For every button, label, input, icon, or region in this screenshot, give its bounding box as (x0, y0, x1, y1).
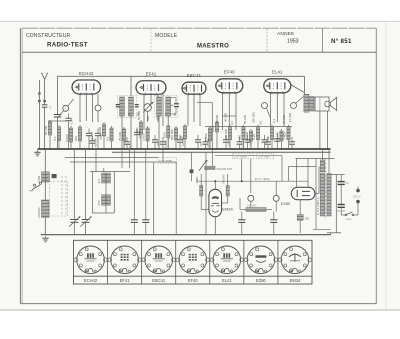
HT rail right (205, 126, 292, 128)
antenna lead-in arrow (38, 80, 41, 97)
svg-text:MAESTRO: MAESTRO (197, 44, 229, 50)
power transformer primary (320, 173, 325, 216)
svg-text:2.000: 2.000 (241, 140, 245, 148)
volume potentiometer (199, 160, 233, 171)
HT rail left (48, 120, 67, 122)
band switch dashed box (50, 182, 68, 217)
EM34 plate resistor (226, 186, 229, 197)
T1 padder capacitor right (135, 105, 139, 107)
wire x96 down (95, 149, 97, 172)
test point m (95, 94, 101, 122)
bottom chassis bus (41, 234, 331, 236)
svg-text:30: 30 (127, 112, 131, 116)
capacitor c6 (124, 137, 130, 149)
svg-text:C.S.6.V604.A: C.S.6.V604.A (316, 197, 320, 215)
resistor r7 (122, 129, 125, 141)
svg-text:0,1: 0,1 (155, 115, 159, 120)
svg-text:C.R. 450: C.R. 450 (258, 155, 269, 159)
svg-text:50+50: 50+50 (337, 209, 345, 213)
EZ80 leads (288, 159, 334, 230)
ground bottom left (42, 236, 48, 242)
extra value labels right cluster (137, 110, 292, 125)
svg-text:0,5: 0,5 (258, 120, 262, 125)
resistor r21 leads (288, 125, 290, 149)
svg-text:0,02: 0,02 (211, 126, 215, 132)
svg-text:500.000 POT: 500.000 POT (216, 167, 232, 171)
band switch contacts (30, 182, 42, 191)
output transformer secondary (310, 96, 314, 111)
resistor r1 leads (49, 120, 51, 149)
capacitor c5 (134, 128, 140, 150)
svg-text:0,1: 0,1 (53, 136, 57, 141)
svg-text:200: 200 (156, 141, 160, 146)
socket EZ80 (244, 246, 277, 274)
resistor r2 (57, 127, 60, 141)
resistor r12 (183, 126, 186, 139)
svg-text:150: 150 (238, 134, 242, 139)
wire AVC rail y181 (196, 180, 308, 182)
resistor r4 (69, 128, 72, 142)
svg-text:0,1: 0,1 (128, 143, 132, 148)
svg-text:CONSTRUCTEUR: CONSTRUCTEUR (26, 33, 71, 39)
svg-text:25.000: 25.000 (118, 131, 122, 141)
svg-text:0,04: 0,04 (70, 118, 74, 124)
resistor r3 leads (79, 125, 81, 149)
IF2 coil a (102, 173, 106, 183)
antenna (41, 73, 48, 101)
svg-text:EBC41: EBC41 (187, 73, 202, 78)
resistor r11 (174, 128, 177, 140)
EM34 grid resistor (200, 186, 203, 197)
AF preamp EF40 (216, 79, 243, 94)
resistor r13 (208, 128, 211, 141)
socket EBC41 (142, 246, 175, 274)
svg-text:25.000: 25.000 (282, 114, 286, 124)
wire ECH42 cathode drops (80, 94, 93, 122)
resistor r12 leads (184, 124, 186, 149)
wire EL41 drops (271, 93, 285, 127)
triode-hexode ECH42 (72, 80, 101, 95)
filter capacitor 1 (338, 175, 350, 205)
svg-text:E.T.T. 4644: E.T.T. 4644 (255, 177, 270, 181)
coil value labels (37, 112, 320, 218)
rectifier EZ80 (291, 187, 315, 199)
svg-text:ECH42: ECH42 (79, 71, 94, 76)
potentiometer with arrow (143, 94, 153, 122)
resistor r15 leads (229, 125, 231, 149)
wire to test point B1 (250, 159, 252, 193)
svg-text:50: 50 (173, 112, 177, 116)
svg-text:EZ80: EZ80 (256, 278, 267, 283)
resistor r9 (146, 128, 149, 141)
resistor r1 (48, 122, 51, 135)
wire IF2 right (113, 172, 115, 213)
svg-text:40.000: 40.000 (276, 131, 280, 141)
resistor r19 (270, 127, 273, 140)
antenna coil Lb (46, 172, 50, 182)
svg-text:EM34: EM34 (222, 207, 233, 212)
resistor r14 (215, 122, 218, 132)
resistor r5 (102, 124, 105, 136)
wire y162 (70, 161, 176, 163)
svg-text:10.000: 10.000 (181, 136, 185, 146)
page bottom edge (0, 309, 400, 311)
capacitor ant coupling (54, 115, 61, 150)
IF2 coil c (102, 195, 106, 205)
wire left column (44, 149, 46, 172)
svg-text:500.000: 500.000 (247, 203, 257, 207)
page top edge (0, 20, 400, 22)
oscillator coil Lo (42, 200, 50, 218)
tube socket chart (74, 240, 313, 284)
EM34 resistor labels (195, 174, 225, 183)
svg-text:10.000: 10.000 (288, 112, 292, 122)
wire y157 (65, 157, 158, 159)
svg-text:50.000: 50.000 (222, 174, 226, 183)
wire vertical v3 (153, 162, 155, 235)
bypass capacitor cb2 (142, 149, 149, 235)
drawing frame (20, 28, 376, 304)
wire y116 ef40 (223, 115, 237, 117)
resistor r9 leads (147, 126, 149, 149)
resistor r8 (139, 122, 142, 134)
wire vertical v5 (175, 162, 177, 235)
wire y171 horizontal (90, 171, 130, 173)
svg-text:50.000: 50.000 (138, 129, 142, 139)
svg-text:500.000: 500.000 (170, 129, 174, 140)
wire EBC41 drops (188, 94, 200, 126)
output pentode EL41 (264, 79, 291, 94)
capacitor c3 (95, 129, 101, 150)
wire EF40 drops (223, 93, 237, 130)
T1 primary coil (120, 97, 125, 116)
resistor r18 leads (257, 125, 259, 149)
wire y155 right (215, 155, 282, 157)
svg-text:EF40: EF40 (224, 70, 235, 75)
padding trimmer dark (52, 174, 57, 178)
svg-text:150: 150 (305, 217, 310, 221)
capacitor c13 (237, 137, 243, 149)
svg-text:5.000: 5.000 (65, 134, 69, 142)
resistor r20 leads (281, 129, 283, 149)
svg-text:C.R. 5080: C.R. 5080 (234, 155, 247, 159)
svg-text:0,5: 0,5 (106, 136, 110, 141)
antenna coil La (42, 172, 46, 182)
label box CR450 (257, 153, 274, 158)
main chassis bus (38, 148, 331, 150)
test point A2 (291, 97, 304, 109)
resistor r20 (280, 131, 283, 141)
wire vertical v4 (162, 149, 164, 162)
resistor r6 (110, 128, 113, 141)
resistor r16 leads (243, 125, 245, 149)
capacitor c16 (265, 137, 271, 149)
EM34 grid resistor leads (201, 174, 209, 210)
svg-text:47.000: 47.000 (215, 114, 219, 124)
resistor r19 leads (271, 125, 273, 149)
svg-text:25.000: 25.000 (207, 138, 211, 148)
socket EF40 (176, 246, 209, 274)
svg-text:0,5: 0,5 (199, 141, 203, 146)
svg-text:0,25: 0,25 (252, 134, 256, 140)
wire EL41 anode to output transformer (291, 76, 305, 95)
resistor r7 leads (123, 127, 125, 149)
resistor r15 (228, 127, 231, 140)
bottom bus right hook (327, 233, 341, 235)
filter capacitor 2 (337, 205, 345, 216)
svg-text:50: 50 (346, 181, 350, 185)
HT wire right (331, 175, 345, 233)
resistor r3 (78, 127, 81, 141)
oscillator coil lead (44, 218, 46, 236)
resistor r8 leads (140, 120, 142, 149)
resistor r10 leads (167, 124, 169, 149)
svg-text:30: 30 (164, 112, 168, 116)
resistor r11 leads (175, 126, 177, 149)
svg-text:100: 100 (227, 141, 231, 146)
capacitor c10 (195, 135, 201, 149)
antenna trimmer capacitor C (42, 101, 48, 149)
svg-text:Inter.: Inter. (346, 217, 352, 221)
IF2 coil b (106, 173, 110, 183)
AVC resistor horizontal (240, 198, 272, 212)
IF pentode EF41 (136, 81, 166, 96)
wire cr5080 to avc rail (241, 159, 243, 181)
resistor r6 leads (111, 126, 113, 149)
resistor r10 (167, 126, 170, 138)
wire EF41 drops (144, 94, 163, 130)
wire EBC41 diode to volume (197, 102, 212, 166)
resistor r2 leads (58, 125, 60, 149)
T1 padder capacitor left (116, 105, 120, 107)
svg-text:50: 50 (136, 112, 140, 116)
T2 secondary coil (166, 97, 171, 116)
resistor r18 (256, 127, 259, 140)
svg-text:200: 200 (74, 136, 78, 141)
capacitor c2 (86, 129, 92, 150)
svg-text:1953: 1953 (287, 39, 299, 45)
capacitor c14 (245, 135, 251, 149)
svg-text:40.000: 40.000 (224, 112, 228, 122)
T2 secondary coupling capacitor (171, 98, 179, 115)
svg-text:1 MΩ: 1 MΩ (283, 132, 287, 140)
capacitor c9 (177, 135, 183, 149)
svg-text:473: 473 (97, 200, 101, 205)
test point A1 (262, 103, 271, 119)
svg-text:ANNEE: ANNEE (277, 31, 295, 37)
EZ80 cathode resistor 150 (297, 200, 309, 234)
T1 leads (122, 116, 131, 149)
svg-text:60.000: 60.000 (94, 137, 98, 147)
svg-text:0,1: 0,1 (230, 120, 234, 125)
wire test point B2 up (275, 181, 277, 195)
IF transformer T1 (117, 95, 136, 117)
svg-text:EL41: EL41 (272, 70, 283, 75)
wire IF1 drop from top bus (130, 76, 132, 96)
component value labels (44, 118, 287, 148)
test point B2 (273, 195, 279, 211)
socket EL41 (210, 246, 243, 274)
svg-text:0,05: 0,05 (249, 140, 253, 146)
test point a (59, 99, 74, 117)
svg-text:EL41: EL41 (222, 278, 232, 283)
svg-text:1 MΩ: 1 MΩ (195, 176, 199, 184)
wire vertical v2 (129, 149, 131, 168)
resistor r13 leads (209, 126, 211, 149)
svg-text:EBC41: EBC41 (152, 278, 166, 283)
wire vertical v1 (121, 149, 123, 168)
svg-text:300: 300 (146, 116, 150, 121)
header table (22, 28, 376, 52)
svg-text:EF41: EF41 (120, 278, 131, 283)
T2 primary coil (157, 97, 162, 116)
resistor r16 (242, 127, 245, 140)
power transformer top lead (323, 149, 330, 173)
wire EM34 top lead (214, 181, 216, 189)
wire y155 down (281, 156, 283, 182)
wire IF2 left (91, 172, 93, 213)
mains terminals 220V (353, 187, 361, 216)
socket EF41 (108, 246, 141, 274)
speaker (315, 97, 337, 111)
bypass capacitor cb1 (131, 149, 138, 235)
IF2 center leads (92, 168, 114, 213)
label box CR5080 left (158, 158, 176, 164)
speaker leads (320, 111, 328, 149)
resistor r21 (287, 127, 290, 140)
dropper resistor dark (190, 152, 194, 181)
wire EM34 cathode down (214, 217, 216, 235)
tuning gang capacitor CV2 (80, 149, 91, 235)
page right edge (385, 21, 387, 310)
svg-text:EF40: EF40 (188, 278, 199, 283)
svg-text:EZ80: EZ80 (281, 202, 290, 206)
resistor r5 leads (103, 122, 105, 149)
power transformer secondary (327, 173, 331, 216)
power transformer primary top (320, 160, 325, 172)
resistor r14 leads (216, 120, 218, 149)
capacitor c17 (274, 134, 280, 149)
test point B1 (248, 195, 254, 207)
svg-text:50.000: 50.000 (44, 125, 48, 135)
socket EM34 (278, 246, 311, 274)
svg-text:0,05: 0,05 (162, 132, 166, 138)
capacitor c1 (66, 114, 72, 150)
svg-text:20.000: 20.000 (245, 131, 249, 141)
capacitor c12 (223, 135, 229, 149)
bypass capacitor cb4 (270, 212, 277, 235)
svg-text:0,1: 0,1 (272, 118, 276, 123)
detector EBC41 (182, 82, 206, 95)
oscillator coil (44, 182, 46, 200)
svg-text:220 V.: 220 V. (353, 195, 361, 199)
HT supply rail (112, 151, 331, 153)
wire grid ECH42 drop (57, 76, 59, 114)
ground main (34, 150, 40, 156)
magic eye EM34 (209, 189, 222, 216)
EM34 plate resistor leads (222, 174, 228, 203)
capacitor c8 (160, 137, 166, 149)
capacitor c18 (289, 137, 295, 149)
capacitor c7 (152, 135, 158, 149)
label box CR5080 right (232, 153, 253, 158)
wire vertical v6 (205, 152, 207, 234)
svg-text:473: 473 (97, 178, 101, 183)
svg-text:300.000: 300.000 (224, 129, 228, 140)
svg-text:250: 250 (99, 134, 103, 139)
tuning gang capacitor CV1 (69, 149, 80, 235)
antenna terminal dots (38, 100, 45, 102)
svg-text:C.R. 5080: C.R. 5080 (159, 159, 172, 163)
resistor r17 leads (250, 129, 252, 149)
wire top bus (58, 75, 305, 77)
socket ECH42 (74, 246, 107, 274)
capacitor c4 (90, 136, 96, 149)
capacitor c15 (262, 135, 268, 149)
svg-text:70: 70 (266, 136, 270, 140)
svg-text:MODELE: MODELE (155, 33, 178, 39)
svg-text:6.81003: 6.81003 (37, 207, 41, 218)
output transformer primary (304, 94, 309, 112)
resistor r4 leads (70, 126, 72, 149)
resistor r17 (249, 131, 252, 141)
svg-text:EF41: EF41 (146, 72, 157, 77)
svg-text:300.000: 300.000 (252, 112, 256, 123)
svg-text:RADIO-TEST: RADIO-TEST (47, 42, 88, 49)
svg-text:2.000: 2.000 (142, 133, 146, 141)
IF transformer T2 (154, 95, 177, 117)
wire antenna down (38, 96, 40, 149)
bypass capacitor cb3 (238, 212, 245, 235)
power transformer core (325, 158, 327, 218)
svg-text:EM34: EM34 (290, 278, 301, 283)
svg-text:N° 851: N° 851 (331, 38, 352, 45)
T1 secondary coil (129, 97, 134, 116)
IF2 coil d (106, 195, 110, 205)
svg-text:5.000: 5.000 (164, 140, 168, 148)
svg-text:50.000: 50.000 (243, 114, 247, 124)
switch gang dashed links (62, 176, 66, 215)
mains switch (341, 212, 358, 221)
capacitor c11 (203, 137, 209, 149)
T2 leads (159, 116, 168, 149)
svg-text:ECH42: ECH42 (84, 278, 98, 283)
